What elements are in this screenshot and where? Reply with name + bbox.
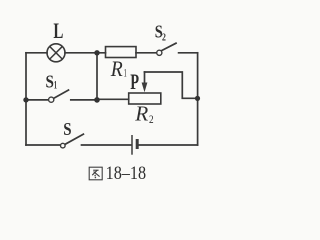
svg-text:18–18: 18–18: [106, 163, 147, 184]
svg-text:L: L: [53, 18, 63, 43]
svg-text:2: 2: [149, 112, 154, 126]
svg-text:S: S: [46, 72, 54, 92]
svg-text:S: S: [63, 119, 71, 139]
svg-text:P: P: [130, 69, 139, 94]
svg-text:1: 1: [124, 66, 127, 80]
svg-text:1: 1: [54, 80, 57, 92]
svg-text:R: R: [134, 102, 148, 126]
svg-text:R: R: [110, 56, 123, 81]
svg-text:2: 2: [162, 31, 166, 43]
